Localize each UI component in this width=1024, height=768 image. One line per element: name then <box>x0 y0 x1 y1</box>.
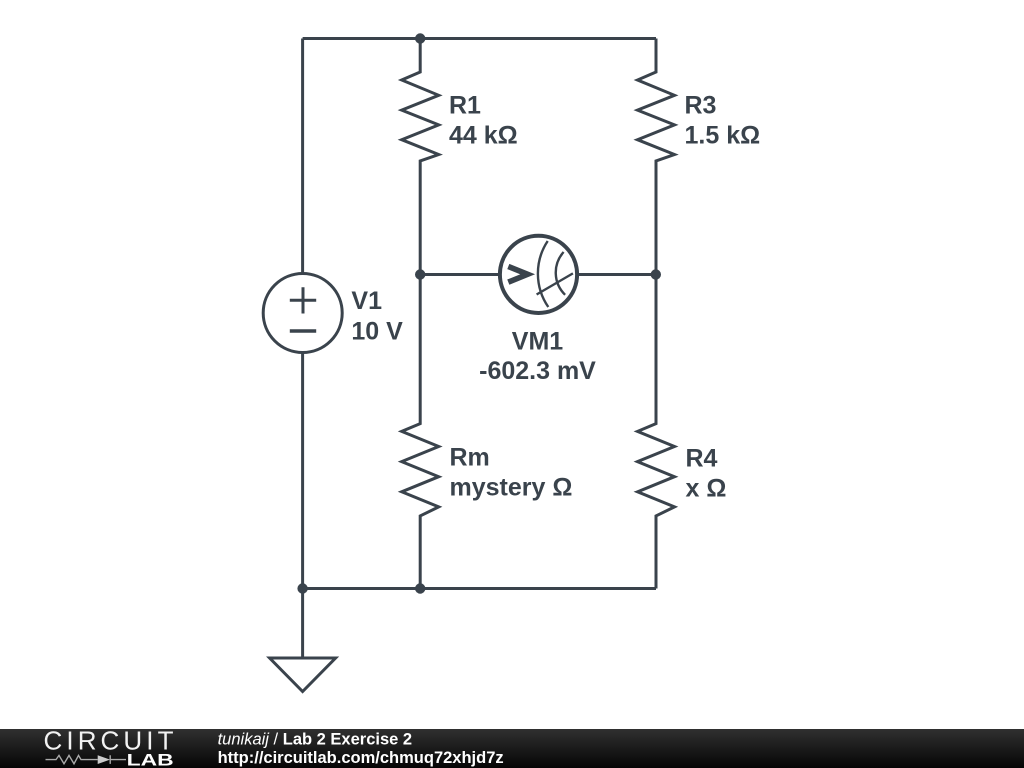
voltmeter VM1 <box>500 236 577 313</box>
node dot bottom left <box>297 583 307 593</box>
voltage source V1 <box>263 274 342 353</box>
resistor R1 <box>402 39 439 275</box>
svg-text:R3: R3 <box>685 92 717 120</box>
svg-text:R4: R4 <box>686 444 718 472</box>
ground wire <box>301 589 304 659</box>
node dot bottom mid <box>415 583 425 593</box>
wire bottom rail <box>303 587 656 590</box>
svg-text:http://circuitlab.com/chmuq72x: http://circuitlab.com/chmuq72xhjd7z <box>218 749 504 767</box>
node dot middle left <box>415 269 425 279</box>
wire top rail <box>303 37 656 40</box>
logo diode bar and tail <box>110 755 126 764</box>
wire middle right <box>579 273 656 276</box>
svg-text:mystery Ω: mystery Ω <box>450 474 573 502</box>
footer bar <box>0 729 1024 768</box>
V1 minus sign <box>290 329 316 333</box>
svg-text:44 kΩ: 44 kΩ <box>449 121 518 149</box>
svg-text:-602.3 mV: -602.3 mV <box>479 357 596 385</box>
V1 plus sign <box>290 287 316 313</box>
svg-text:10 V: 10 V <box>351 317 403 345</box>
svg-text:V1: V1 <box>351 287 382 315</box>
node dot top <box>415 33 425 43</box>
wire left rail lower <box>301 353 304 589</box>
svg-text:1.5 kΩ: 1.5 kΩ <box>685 121 761 149</box>
resistor R3 <box>638 39 675 275</box>
node dot middle right <box>651 269 661 279</box>
logo resistor squiggle <box>46 755 98 763</box>
svg-text:VM1: VM1 <box>512 328 564 356</box>
logo diode triangle <box>98 755 110 764</box>
VM1 meter arc right <box>556 252 565 295</box>
VM1 arrow <box>508 267 527 283</box>
wire left rail upper <box>301 39 304 274</box>
resistor Rm <box>402 275 439 589</box>
VM1 needle <box>537 273 573 294</box>
resistor R4 <box>638 275 675 589</box>
VM1 meter arc left <box>538 241 548 307</box>
svg-text:LAB: LAB <box>127 751 174 768</box>
svg-text:x Ω: x Ω <box>686 474 727 502</box>
ground triangle <box>270 658 336 692</box>
svg-text:tunikaij / Lab 2 Exercise 2: tunikaij / Lab 2 Exercise 2 <box>218 731 412 749</box>
wire middle left <box>420 273 498 276</box>
svg-text:Rm: Rm <box>450 444 490 472</box>
svg-text:R1: R1 <box>449 92 481 120</box>
